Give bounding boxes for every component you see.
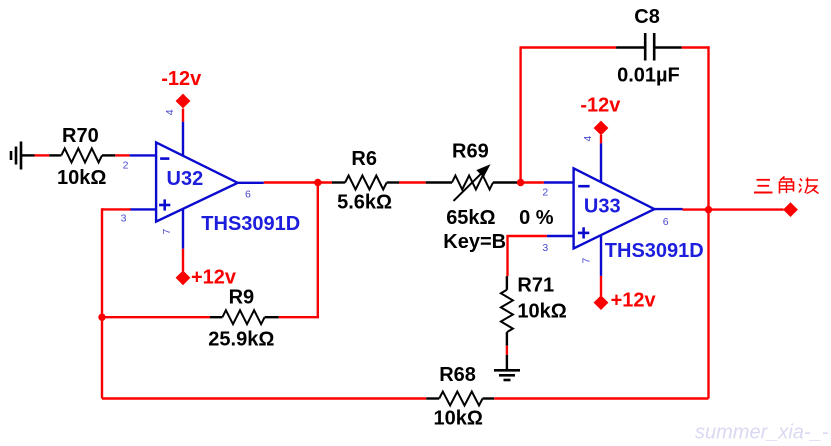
svg-text:U33: U33 — [584, 196, 621, 218]
svg-text:5.6kΩ: 5.6kΩ — [337, 192, 392, 214]
svg-text:R68: R68 — [439, 364, 476, 386]
svg-text:0.01µF: 0.01µF — [617, 65, 680, 87]
svg-text:+12v: +12v — [191, 267, 237, 289]
svg-text:2: 2 — [123, 160, 129, 172]
svg-text:-12v: -12v — [580, 95, 621, 117]
svg-text:7: 7 — [580, 258, 592, 264]
svg-text:3: 3 — [542, 242, 548, 254]
svg-text:10kΩ: 10kΩ — [517, 301, 566, 323]
svg-text:R9: R9 — [229, 287, 255, 309]
svg-text:R69: R69 — [452, 141, 489, 163]
svg-text:7: 7 — [161, 229, 173, 235]
svg-text:4: 4 — [582, 136, 594, 142]
svg-text:65kΩ: 65kΩ — [446, 207, 495, 229]
svg-text:THS3091D: THS3091D — [201, 213, 300, 235]
svg-text:3: 3 — [121, 213, 127, 225]
svg-text:THS3091D: THS3091D — [605, 240, 704, 262]
svg-text:10kΩ: 10kΩ — [57, 167, 106, 189]
svg-text:0 %: 0 % — [519, 207, 554, 229]
svg-text:U32: U32 — [167, 168, 204, 190]
svg-text:6: 6 — [245, 188, 251, 200]
svg-text:+12v: +12v — [611, 289, 657, 311]
svg-text:10kΩ: 10kΩ — [434, 408, 483, 430]
svg-text:R71: R71 — [517, 274, 554, 296]
svg-text:-12v: -12v — [161, 68, 202, 90]
svg-text:4: 4 — [164, 109, 176, 115]
svg-text:Key=B: Key=B — [443, 231, 506, 253]
svg-text:summer_xia-_-: summer_xia-_- — [695, 422, 829, 444]
svg-text:6: 6 — [663, 216, 669, 228]
svg-text:C8: C8 — [634, 6, 660, 28]
svg-text:R6: R6 — [351, 148, 377, 170]
svg-text:R70: R70 — [62, 125, 99, 147]
svg-text:25.9kΩ: 25.9kΩ — [208, 329, 274, 351]
svg-text:2: 2 — [542, 187, 548, 199]
